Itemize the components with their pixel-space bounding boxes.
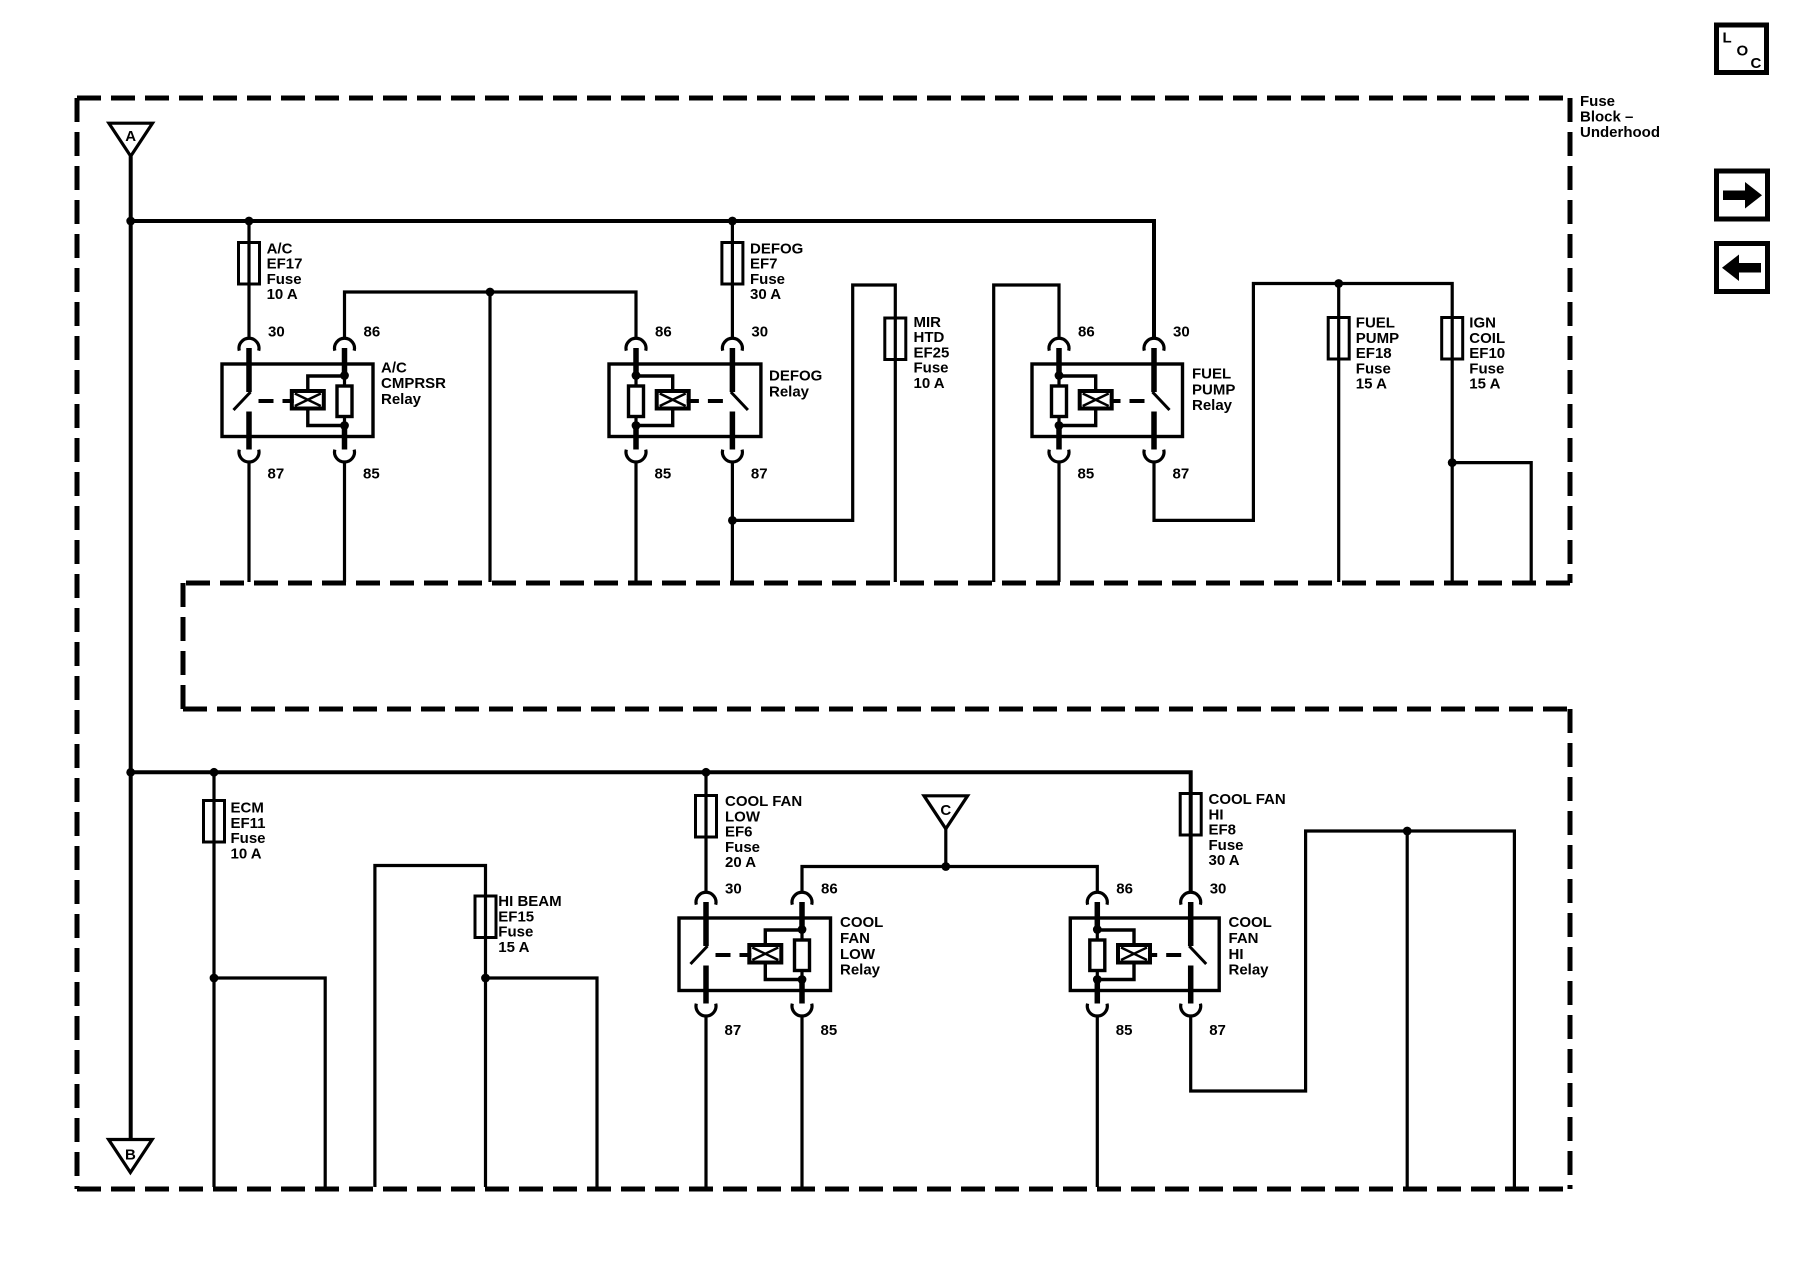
svg-text:HI: HI <box>1229 946 1244 963</box>
relay K5 (COOL FAN HI): coil parallel resistor <box>1090 902 1105 1004</box>
fuse block inner slot: upper dashed edge <box>183 581 1570 586</box>
wire: HI BEAM fuse output branch <box>486 978 598 1187</box>
svg-text:C: C <box>940 802 951 819</box>
relay K4 (COOL FAN LOW): pin connector (top-left) <box>696 892 716 904</box>
svg-text:30: 30 <box>725 881 742 898</box>
svg-text:Underhood: Underhood <box>1580 124 1660 141</box>
svg-text:85: 85 <box>363 466 380 483</box>
relay K2 (DEFOG): coil parallel resistor <box>629 348 644 450</box>
svg-text:30 A: 30 A <box>750 286 781 303</box>
svg-text:C: C <box>1751 55 1762 72</box>
fuse EF17 (A/C 10 A) <box>239 243 260 285</box>
relay K4 (COOL FAN LOW): internal wiring loop <box>765 930 802 980</box>
wire: triangle C drop <box>944 829 947 867</box>
fuse EF10 (IGN COIL 15 A) <box>1442 318 1463 360</box>
junction: triangle C / 86 bridge <box>941 862 950 871</box>
relay K2 (DEFOG): pin connector (bottom-left) <box>626 450 646 462</box>
relay K4 (COOL FAN LOW): pin connector (top-right) <box>792 892 812 904</box>
relay K1 (A/C CMPRSR): pin connector (top-right) <box>335 338 355 350</box>
navigation box: arrow right <box>1717 171 1768 219</box>
relay K4 (COOL FAN LOW): pin connector (bottom-right) <box>792 1004 812 1016</box>
svg-text:O: O <box>1737 43 1749 60</box>
relay K5 (COOL FAN HI): internal wiring loop <box>1097 930 1134 980</box>
relay K4 (COOL FAN LOW): coil parallel resistor <box>795 902 810 1004</box>
relay K1 (A/C CMPRSR): pin connector (top-left) <box>239 338 259 350</box>
svg-text:20 A: 20 A <box>725 854 756 871</box>
label: relay K5 (COOL FAN HI) name <box>1229 914 1272 979</box>
label: fuse EF17 (A/C 10 A) value <box>267 240 303 303</box>
svg-text:10 A: 10 A <box>267 286 298 303</box>
junction: COOL FAN HI pin 87 run split <box>1403 827 1412 836</box>
svg-text:COOL: COOL <box>840 914 883 931</box>
relay K3 (FUEL PUMP): junction on coil line (bottom) <box>1055 421 1064 430</box>
svg-text:85: 85 <box>1116 1022 1133 1039</box>
junction: upper bus / DEFOG fuse tap <box>728 217 737 226</box>
relay K4 (COOL FAN LOW): junction on coil line (top) <box>798 925 807 934</box>
wire: upper bus to A/C CMPRSR relay pin 30 (through fuse EF17) <box>247 221 250 337</box>
junction: lower bus / ECM fuse tap <box>210 768 219 777</box>
wire: COOL FAN HI relay pin 87 run <box>1191 831 1515 1187</box>
wire: DEFOG pin 87 to MIR HTD fuse EF25 <box>732 285 895 582</box>
wire: ECM fuse output branch <box>214 978 325 1187</box>
svg-text:Fuse: Fuse <box>1580 93 1615 110</box>
relay K4 (COOL FAN LOW): junction on coil line (bottom) <box>798 975 807 984</box>
svg-text:FAN: FAN <box>840 930 870 947</box>
power connector triangle A <box>109 123 153 156</box>
svg-text:10 A: 10 A <box>914 375 945 392</box>
relay K3 (FUEL PUMP): coil parallel resistor <box>1052 348 1067 450</box>
wire: trunk from triangle A to triangle B <box>129 156 133 1139</box>
relay K2 (DEFOG): coil <box>657 391 689 409</box>
wire: COOL FAN HI relay pin 85 drop <box>1096 1017 1099 1187</box>
junction: trunk / lower bus <box>126 768 135 777</box>
power connector triangle C <box>924 796 968 829</box>
svg-text:Block –: Block – <box>1580 109 1633 126</box>
relay K4 (COOL FAN LOW): case <box>679 918 831 991</box>
relay K3 (FUEL PUMP): case <box>1032 364 1183 437</box>
svg-text:86: 86 <box>1078 324 1095 341</box>
svg-text:15 A: 15 A <box>1356 376 1387 393</box>
relay K1 (A/C CMPRSR): coil parallel resistor <box>337 348 352 450</box>
relay K2 (DEFOG): pin connector (top-right) <box>722 338 742 350</box>
relay K4 (COOL FAN LOW): pin 30/87 switch <box>691 902 708 1004</box>
svg-text:Relay: Relay <box>1229 962 1270 979</box>
fuse EF18 (FUEL PUMP 15 A) <box>1328 318 1349 360</box>
relay K2 (DEFOG): pin 30/87 switch <box>731 348 748 450</box>
svg-text:85: 85 <box>655 466 672 483</box>
junction: ECM fuse output split <box>210 974 219 983</box>
fuse EF7 (DEFOG 30 A) <box>722 243 743 285</box>
relay K2 (DEFOG): pin connector (top-left) <box>626 338 646 350</box>
fuse block dashed border: top edge <box>77 96 1570 101</box>
svg-text:86: 86 <box>364 324 381 341</box>
relay K3 (FUEL PUMP): coil <box>1080 391 1112 409</box>
wire: FUEL PUMP relay pin 85 drop <box>1057 463 1060 582</box>
label: relay K1 (A/C CMPRSR) name <box>381 359 446 408</box>
relay K5 (COOL FAN HI): pin connector (top-left) <box>1087 892 1107 904</box>
svg-text:L: L <box>1723 30 1732 47</box>
relay K5 (COOL FAN HI): pin connector (bottom-right) <box>1181 1004 1201 1016</box>
svg-text:30: 30 <box>268 324 285 341</box>
fuse block dashed border: right edge lower segment <box>1568 709 1573 1189</box>
fuse block inner slot: left dashed edge <box>181 583 186 709</box>
relay K3 (FUEL PUMP): junction on coil line (top) <box>1055 371 1064 380</box>
relay K5 (COOL FAN HI): actuating dashed link <box>1148 953 1181 957</box>
svg-text:A/C: A/C <box>381 359 407 376</box>
label: Fuse Block - Underhood <box>1580 93 1660 141</box>
junction: DEFOG pin 87 / MIR HTD feed <box>728 516 737 525</box>
svg-text:PUMP: PUMP <box>1192 381 1235 398</box>
svg-text:86: 86 <box>1116 881 1133 898</box>
relay K2 (DEFOG): pin connector (bottom-right) <box>722 450 742 462</box>
svg-text:COOL: COOL <box>1229 914 1272 931</box>
relay K4 (COOL FAN LOW): pin connector (bottom-left) <box>696 1004 716 1016</box>
relay K5 (COOL FAN HI): junction on coil line (bottom) <box>1093 975 1102 984</box>
junction: trunk / upper bus <box>126 217 135 226</box>
relay K5 (COOL FAN HI): pin connector (bottom-left) <box>1087 1004 1107 1016</box>
relay K3 (FUEL PUMP): internal wiring loop <box>1059 376 1096 426</box>
wire: FUEL PUMP relay pin 87 to fuses EF18/EF10 <box>1154 284 1452 583</box>
relay K1 (A/C CMPRSR): pin connector (bottom-right) <box>335 450 355 462</box>
svg-text:87: 87 <box>751 466 768 483</box>
wire: IGN COIL fuse output branch <box>1452 463 1531 582</box>
relay K1 (A/C CMPRSR): coil <box>292 391 324 409</box>
svg-text:87: 87 <box>268 466 285 483</box>
label: fuse EF11 (ECM 10 A) value <box>231 800 266 863</box>
relay K3 (FUEL PUMP): pin connector (top-left) <box>1049 338 1069 350</box>
label: relay K3 (FUEL PUMP) name <box>1192 365 1235 414</box>
wire: DEFOG relay pin 87 drop <box>731 463 734 582</box>
label: relay K4 (COOL FAN LOW) name <box>840 914 883 979</box>
label: fuse EF6 (COOL FAN LOW 20 A) value <box>725 793 802 871</box>
svg-text:87: 87 <box>1173 466 1190 483</box>
relay K2 (DEFOG): actuating dashed link <box>687 399 723 403</box>
junction: HI BEAM fuse output split <box>481 974 490 983</box>
relay K3 (FUEL PUMP): pin connector (bottom-right) <box>1144 450 1164 462</box>
svg-text:85: 85 <box>1078 466 1095 483</box>
fuse block dashed border: bottom edge <box>77 1187 1570 1192</box>
junction: upper bus / A-C fuse tap <box>245 217 254 226</box>
label: fuse EF25 (MIR HTD 10 A) value <box>914 314 950 392</box>
relay K2 (DEFOG): internal wiring loop <box>636 376 673 426</box>
junction: IGN COIL fuse output split <box>1448 458 1457 467</box>
relay K5 (COOL FAN HI): pin connector (top-right) <box>1181 892 1201 904</box>
svg-text:LOW: LOW <box>840 946 876 963</box>
wire: A/C relay pin 87 drop <box>247 463 250 582</box>
wire: A/C relay pin 85 drop <box>343 463 346 582</box>
svg-text:FUEL: FUEL <box>1192 365 1231 382</box>
svg-text:30 A: 30 A <box>1209 852 1240 869</box>
wire: lower bus through ECM fuse EF11 to bottom <box>212 772 215 1187</box>
wire: lower feed bus <box>131 772 1191 891</box>
fuse EF8 (COOL FAN HI 30 A) <box>1180 794 1201 836</box>
relay K5 (COOL FAN HI): junction on coil line (top) <box>1093 925 1102 934</box>
svg-text:87: 87 <box>725 1022 742 1039</box>
svg-text:Relay: Relay <box>769 383 810 400</box>
svg-text:Relay: Relay <box>1192 397 1233 414</box>
svg-text:Relay: Relay <box>840 962 881 979</box>
relay K1 (A/C CMPRSR): internal wiring loop <box>308 376 345 426</box>
wire: upper feed bus <box>131 221 1154 337</box>
wire: DEFOG relay pin 85 drop <box>634 463 637 582</box>
svg-text:86: 86 <box>655 324 672 341</box>
label: fuse EF15 (HI BEAM 15 A) value <box>498 893 561 956</box>
svg-text:30: 30 <box>1173 324 1190 341</box>
fuse EF6 (COOL FAN LOW 20 A) <box>696 796 717 838</box>
wire: FUEL PUMP fuse EF18 feed and output drop <box>1337 284 1340 583</box>
wire: upper bus to DEFOG relay pin 30 (through fuse EF7) <box>731 221 734 337</box>
label: fuse EF10 (IGN COIL 15 A) value <box>1469 315 1505 393</box>
junction: lower bus / COOL FAN LOW fuse tap <box>702 768 711 777</box>
relay K2 (DEFOG): junction on coil line (bottom) <box>632 421 641 430</box>
wire: COOL FAN relays pin 86 bridge <box>802 867 1097 892</box>
relay K3 (FUEL PUMP): actuating dashed link <box>1110 399 1145 403</box>
svg-text:10 A: 10 A <box>231 845 262 862</box>
fuse EF25 (MIR HTD 10 A) <box>885 318 906 360</box>
svg-text:DEFOG: DEFOG <box>769 368 822 385</box>
svg-text:CMPRSR: CMPRSR <box>381 375 446 392</box>
junction: 86-bridge / drop wire <box>486 288 495 297</box>
relay K1 (A/C CMPRSR): pin 30/87 switch <box>234 348 251 450</box>
fuse block dashed border: right edge upper segment <box>1568 98 1573 583</box>
svg-text:15 A: 15 A <box>498 939 529 956</box>
wire: A/C relay pin 86 to DEFOG relay pin 86 bridge <box>345 292 637 337</box>
label: relay K2 (DEFOG) name <box>769 368 822 401</box>
wire: COOL FAN LOW relay pin 85 drop <box>800 1017 803 1187</box>
svg-text:Relay: Relay <box>381 391 422 408</box>
relay K4 (COOL FAN LOW): coil <box>749 945 781 963</box>
relay K1 (A/C CMPRSR): junction on coil line (bottom) <box>340 421 349 430</box>
junction: pin 87 feed / FUEL PUMP fuse EF18 <box>1334 279 1343 288</box>
navigation box: arrow left <box>1717 244 1768 292</box>
fuse block dashed border: left edge <box>75 98 80 1189</box>
svg-text:86: 86 <box>821 881 838 898</box>
label: fuse EF7 (DEFOG 30 A) value <box>750 240 803 303</box>
svg-text:A: A <box>125 128 136 145</box>
wire: COOL FAN LOW relay pin 87 drop <box>704 1017 707 1187</box>
svg-text:B: B <box>125 1147 136 1164</box>
label: fuse EF18 (FUEL PUMP 15 A) value <box>1356 315 1399 393</box>
LOC reference box <box>1717 25 1767 73</box>
relay K2 (DEFOG): case <box>609 364 761 437</box>
power connector triangle B <box>109 1140 153 1173</box>
svg-text:15 A: 15 A <box>1469 376 1500 393</box>
fuse EF11 (ECM 10 A) <box>204 801 225 843</box>
wire: COOL FAN HI pin 87 branch drop <box>1406 831 1409 1187</box>
relay K1 (A/C CMPRSR): actuating dashed link <box>259 399 294 403</box>
relay K3 (FUEL PUMP): pin 30/87 switch <box>1153 348 1170 450</box>
svg-text:87: 87 <box>1209 1022 1226 1039</box>
svg-text:30: 30 <box>751 324 768 341</box>
relay K5 (COOL FAN HI): coil <box>1118 945 1150 963</box>
relay K1 (A/C CMPRSR): pin connector (bottom-left) <box>239 450 259 462</box>
relay K4 (COOL FAN LOW): actuating dashed link <box>716 953 752 957</box>
wire: FUEL PUMP relay pin 86 feed <box>994 285 1059 582</box>
relay K5 (COOL FAN HI): pin 30/87 switch <box>1189 902 1206 1004</box>
relay K5 (COOL FAN HI): case <box>1070 918 1219 991</box>
label: fuse EF8 (COOL FAN HI 30 A) value <box>1209 791 1286 869</box>
svg-text:FAN: FAN <box>1229 930 1259 947</box>
relay K1 (A/C CMPRSR): junction on coil line (top) <box>340 371 349 380</box>
relay K3 (FUEL PUMP): pin connector (bottom-left) <box>1049 450 1069 462</box>
svg-text:85: 85 <box>821 1022 838 1039</box>
wire: 86-bridge drop to lower fuse block <box>488 292 491 582</box>
relay K2 (DEFOG): junction on coil line (top) <box>632 371 641 380</box>
fuse EF15 (HI BEAM 15 A) <box>475 896 496 938</box>
fuse block inner slot: lower dashed edge <box>183 707 1570 712</box>
relay K3 (FUEL PUMP): pin connector (top-right) <box>1144 338 1164 350</box>
relay K1 (A/C CMPRSR): case <box>222 364 373 437</box>
wire: COOL FAN LOW fuse EF6 to relay pin 30 <box>704 772 707 891</box>
svg-text:30: 30 <box>1210 881 1227 898</box>
wire: HI BEAM fuse EF15 feed loop <box>375 866 486 1188</box>
